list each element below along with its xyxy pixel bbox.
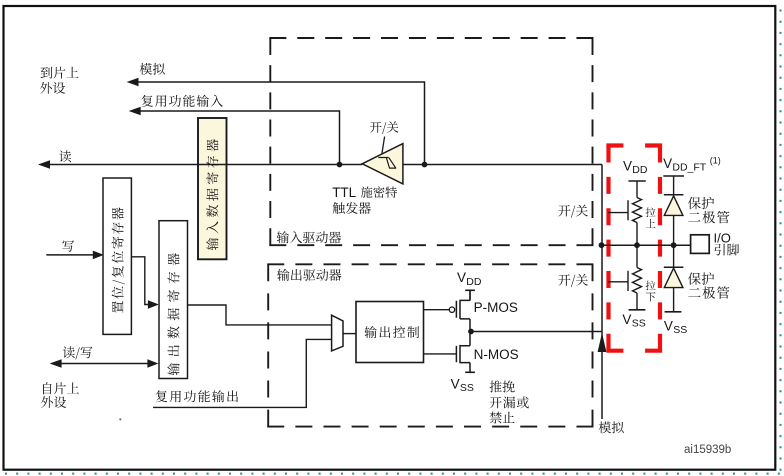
arrowhead read-write left bbox=[50, 359, 62, 368]
label to on-chip peripheral line1 bbox=[41, 67, 79, 79]
label on/off schmitt bbox=[370, 121, 398, 134]
wire analog to peripherals bbox=[138, 82, 425, 165]
diode1 anode stub bbox=[673, 176, 675, 195]
label read/write bbox=[63, 346, 93, 359]
schmitt hysteresis symbol bbox=[378, 158, 396, 169]
wire alternate function output bbox=[153, 339, 332, 407]
label write bbox=[62, 240, 74, 252]
label disabled bbox=[490, 412, 515, 424]
wire gate nmos bbox=[424, 353, 457, 355]
input driver dashed box bottom edge bbox=[269, 244, 593, 246]
red dashed highlight box top edge bbox=[606, 143, 662, 147]
label pin bbox=[715, 244, 740, 256]
output driver dashed box left edge bbox=[267, 264, 269, 426]
label pull-down 2 bbox=[646, 292, 656, 301]
io pin pad square bbox=[691, 235, 710, 254]
junction analog bbox=[422, 162, 428, 168]
svg-text:I/O: I/O bbox=[714, 231, 731, 246]
svg-text:DD: DD bbox=[466, 276, 482, 288]
arrowhead read-write right bbox=[147, 359, 158, 368]
vdd terminal bar pull-up bbox=[628, 180, 645, 182]
label N-MOS bbox=[474, 347, 519, 362]
svg-text:SS: SS bbox=[632, 317, 646, 329]
output control box bbox=[356, 302, 424, 363]
wire write bbox=[46, 254, 94, 256]
vddft terminal bar bbox=[663, 175, 684, 177]
label TTL bbox=[332, 185, 356, 200]
junction pmos nmos drain bbox=[468, 329, 474, 335]
label schmitt (chinese) bbox=[361, 186, 397, 198]
wire read-write bbox=[60, 363, 148, 365]
label output driver bbox=[277, 269, 341, 281]
label push-pull bbox=[490, 380, 515, 392]
diode2 to vss bbox=[673, 288, 675, 312]
junction diode column bbox=[671, 242, 677, 248]
wire schmitt input from pin bbox=[403, 164, 602, 166]
svg-text:V: V bbox=[457, 270, 466, 285]
label VSS diode col bbox=[664, 319, 687, 337]
svg-text:N-MOS: N-MOS bbox=[474, 347, 519, 362]
label set/reset register (rotated) bbox=[112, 207, 125, 313]
svg-text:V: V bbox=[623, 159, 632, 174]
label on/off output bbox=[558, 274, 588, 287]
arrowhead write bbox=[93, 251, 104, 260]
svg-text:V: V bbox=[622, 312, 631, 327]
stray dot artifact bbox=[119, 418, 121, 420]
label P-MOS bbox=[474, 300, 518, 315]
arrowhead up analog path bbox=[598, 333, 607, 352]
nmos transistor Q2 bbox=[456, 332, 470, 373]
label protection 2 bbox=[688, 272, 714, 285]
label VDD pull-up bbox=[623, 159, 648, 177]
label alternate function output bbox=[156, 390, 238, 402]
svg-text:P-MOS: P-MOS bbox=[474, 300, 518, 315]
svg-text:V: V bbox=[664, 319, 673, 334]
wire alternate function input bbox=[140, 111, 340, 165]
svg-text:SS: SS bbox=[673, 324, 687, 336]
label figure id ai15939b bbox=[684, 444, 731, 456]
label VDD_FT bbox=[663, 156, 721, 174]
label analog top bbox=[140, 63, 165, 75]
red dashed highlight box bottom edge bbox=[606, 349, 662, 353]
wire push-pull output bbox=[471, 331, 602, 333]
pull-up resistor transistor bbox=[608, 181, 641, 245]
label trigger bbox=[333, 202, 371, 214]
pull-down resistor transistor bbox=[608, 245, 641, 310]
red dashed highlight box right edge bbox=[658, 146, 662, 351]
label alternate function input bbox=[141, 95, 223, 107]
vdd terminal bar pmos bbox=[465, 289, 475, 291]
wire bit set-reset to output data register bbox=[131, 257, 149, 305]
svg-text:DD: DD bbox=[632, 164, 648, 176]
protection diode D2 bbox=[664, 268, 683, 288]
register box output data bbox=[159, 221, 188, 379]
label I/O bbox=[714, 231, 731, 246]
label VSS nmos bbox=[451, 376, 474, 394]
label pull-down (vertical) bbox=[646, 281, 656, 291]
svg-text:V: V bbox=[663, 156, 672, 171]
label pull-up (vertical) bbox=[646, 207, 656, 217]
register box input data (highlighted) bbox=[198, 118, 227, 259]
label from on-chip peripheral line1 bbox=[43, 382, 79, 394]
svg-text:ai15939b: ai15939b bbox=[684, 444, 731, 456]
schmitt on/off control line bbox=[382, 137, 385, 154]
svg-text:DD_FT: DD_FT bbox=[672, 162, 706, 174]
junction io line left bbox=[599, 242, 605, 248]
input driver dashed box right edge bbox=[592, 38, 594, 245]
wire read bbox=[49, 164, 362, 166]
input driver dashed box left edge bbox=[269, 38, 271, 245]
label open-drain or bbox=[490, 396, 529, 408]
label output data register (rotated) bbox=[167, 253, 179, 375]
pmos gate bubble bbox=[449, 307, 454, 312]
selection marquee right edge bbox=[780, 10, 782, 476]
diode1 to io line bbox=[673, 215, 675, 245]
svg-text:V: V bbox=[451, 376, 460, 391]
output driver dashed box top edge bbox=[267, 263, 593, 265]
wire output data register to mux bbox=[188, 305, 332, 325]
protection diode D1 bbox=[664, 196, 683, 216]
label diode 1 bbox=[688, 211, 729, 224]
schmitt trigger TTL triangle bbox=[362, 144, 403, 184]
output driver dashed box right edge bbox=[592, 264, 594, 426]
label on/off input bbox=[558, 205, 588, 218]
pmos transistor Q1 bbox=[456, 290, 470, 331]
wire pin column vertical bbox=[601, 165, 603, 420]
diode1 cathode bar bbox=[664, 194, 684, 196]
wire gate pmos bbox=[424, 309, 450, 311]
wire mux output bbox=[343, 333, 356, 335]
label input driver bbox=[277, 231, 341, 243]
input driver dashed box top edge bbox=[269, 37, 593, 39]
svg-text:SS: SS bbox=[460, 382, 474, 394]
label input data register (rotated) bbox=[206, 139, 218, 250]
label VDD pmos bbox=[457, 270, 482, 288]
label analog bottom bbox=[599, 421, 624, 433]
label output control bbox=[365, 326, 420, 338]
diode2 cathode bar bbox=[664, 266, 684, 268]
output driver dashed box bottom edge bbox=[267, 426, 593, 428]
label pull-up 2 bbox=[646, 219, 656, 228]
arrowhead read bbox=[38, 160, 50, 169]
selection marquee bottom edge bbox=[5, 473, 784, 475]
label read bbox=[59, 150, 71, 162]
arrowhead into output data register bbox=[148, 300, 159, 309]
vss terminal bar diode bbox=[665, 311, 682, 313]
junction pull column bbox=[634, 242, 640, 248]
label from on-chip peripheral line2 bbox=[41, 396, 66, 408]
wire io line bbox=[602, 244, 691, 246]
label protection 1 bbox=[688, 197, 714, 210]
svg-text:TTL: TTL bbox=[332, 185, 356, 200]
arrowhead alternate function input bbox=[129, 107, 141, 116]
vdd stub pmos bbox=[469, 290, 471, 300]
label diode 2 bbox=[688, 286, 729, 299]
red dashed highlight box left edge bbox=[606, 146, 610, 351]
vss terminal bar pull-down bbox=[629, 309, 646, 311]
diode2 stub from io bbox=[673, 245, 675, 267]
label VSS pull-down bbox=[622, 312, 645, 330]
arrowhead analog left bbox=[127, 78, 139, 87]
svg-text:(1): (1) bbox=[710, 156, 721, 166]
junction alternate function input bbox=[337, 162, 343, 168]
label to on-chip peripheral line2 bbox=[40, 82, 65, 94]
mux trapezoid bbox=[332, 315, 343, 351]
vss terminal bar nmos bbox=[465, 371, 475, 373]
register box bit set/reset bbox=[103, 178, 131, 334]
